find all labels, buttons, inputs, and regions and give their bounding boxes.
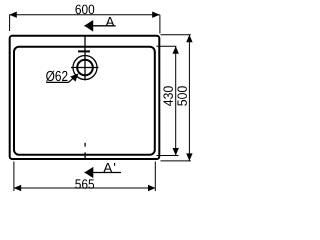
basin inner rectangle xyxy=(14,47,155,155)
dimension 500 label xyxy=(177,86,187,105)
dimension 430 label xyxy=(163,86,173,106)
section label A xyxy=(106,17,115,26)
dimension 565 left extension line xyxy=(13,162,15,192)
dimension 565 right arrow xyxy=(148,185,156,191)
tap hole outer circle xyxy=(73,56,97,80)
dimension 600 label xyxy=(75,5,94,15)
label O62 underline xyxy=(46,81,68,83)
dimension 600 right extension line xyxy=(159,15,161,34)
dimension 600 right arrow xyxy=(152,12,160,18)
section centerline bottom dash xyxy=(84,143,86,147)
label O62 leader line xyxy=(69,77,76,83)
section label A' xyxy=(103,163,115,172)
section arrow A line xyxy=(85,25,116,27)
dimension 565 right extension line xyxy=(154,162,156,192)
dimension 500 line xyxy=(188,35,190,161)
dimension 430 down arrow xyxy=(173,148,179,156)
dimension 430 up arrow xyxy=(173,46,179,54)
dimension 430 top extension line xyxy=(157,45,177,47)
dimension 600 line xyxy=(9,14,159,16)
section centerline bottom segment through rims xyxy=(84,152,86,160)
label O62 leader arrowhead xyxy=(70,73,78,81)
tap hole crosshair horizontal xyxy=(71,67,99,69)
section arrow A' line xyxy=(85,172,121,174)
tap hole centerline vertical xyxy=(84,36,86,81)
dimension 565 line xyxy=(14,187,156,189)
dimension 600 left arrow xyxy=(9,12,16,18)
label O62 xyxy=(46,71,67,82)
dimension 500 bottom extension line xyxy=(161,160,191,162)
section arrow A' head xyxy=(84,167,93,178)
tap hole center tick bar xyxy=(78,50,90,52)
dimension 500 top extension line xyxy=(161,34,191,36)
dimension 565 left arrow xyxy=(14,185,22,191)
dimension 565 label xyxy=(75,179,94,189)
dimension 500 down arrow xyxy=(186,153,192,161)
dimension 430 bottom extension line xyxy=(157,155,179,157)
outer rim rectangle xyxy=(10,36,160,159)
dimension 600 left extension line xyxy=(9,15,11,31)
dimension 500 up arrow xyxy=(186,35,192,43)
tap hole inner circle xyxy=(77,60,93,76)
section arrow A head xyxy=(84,20,93,32)
dimension 430 line xyxy=(175,46,177,155)
